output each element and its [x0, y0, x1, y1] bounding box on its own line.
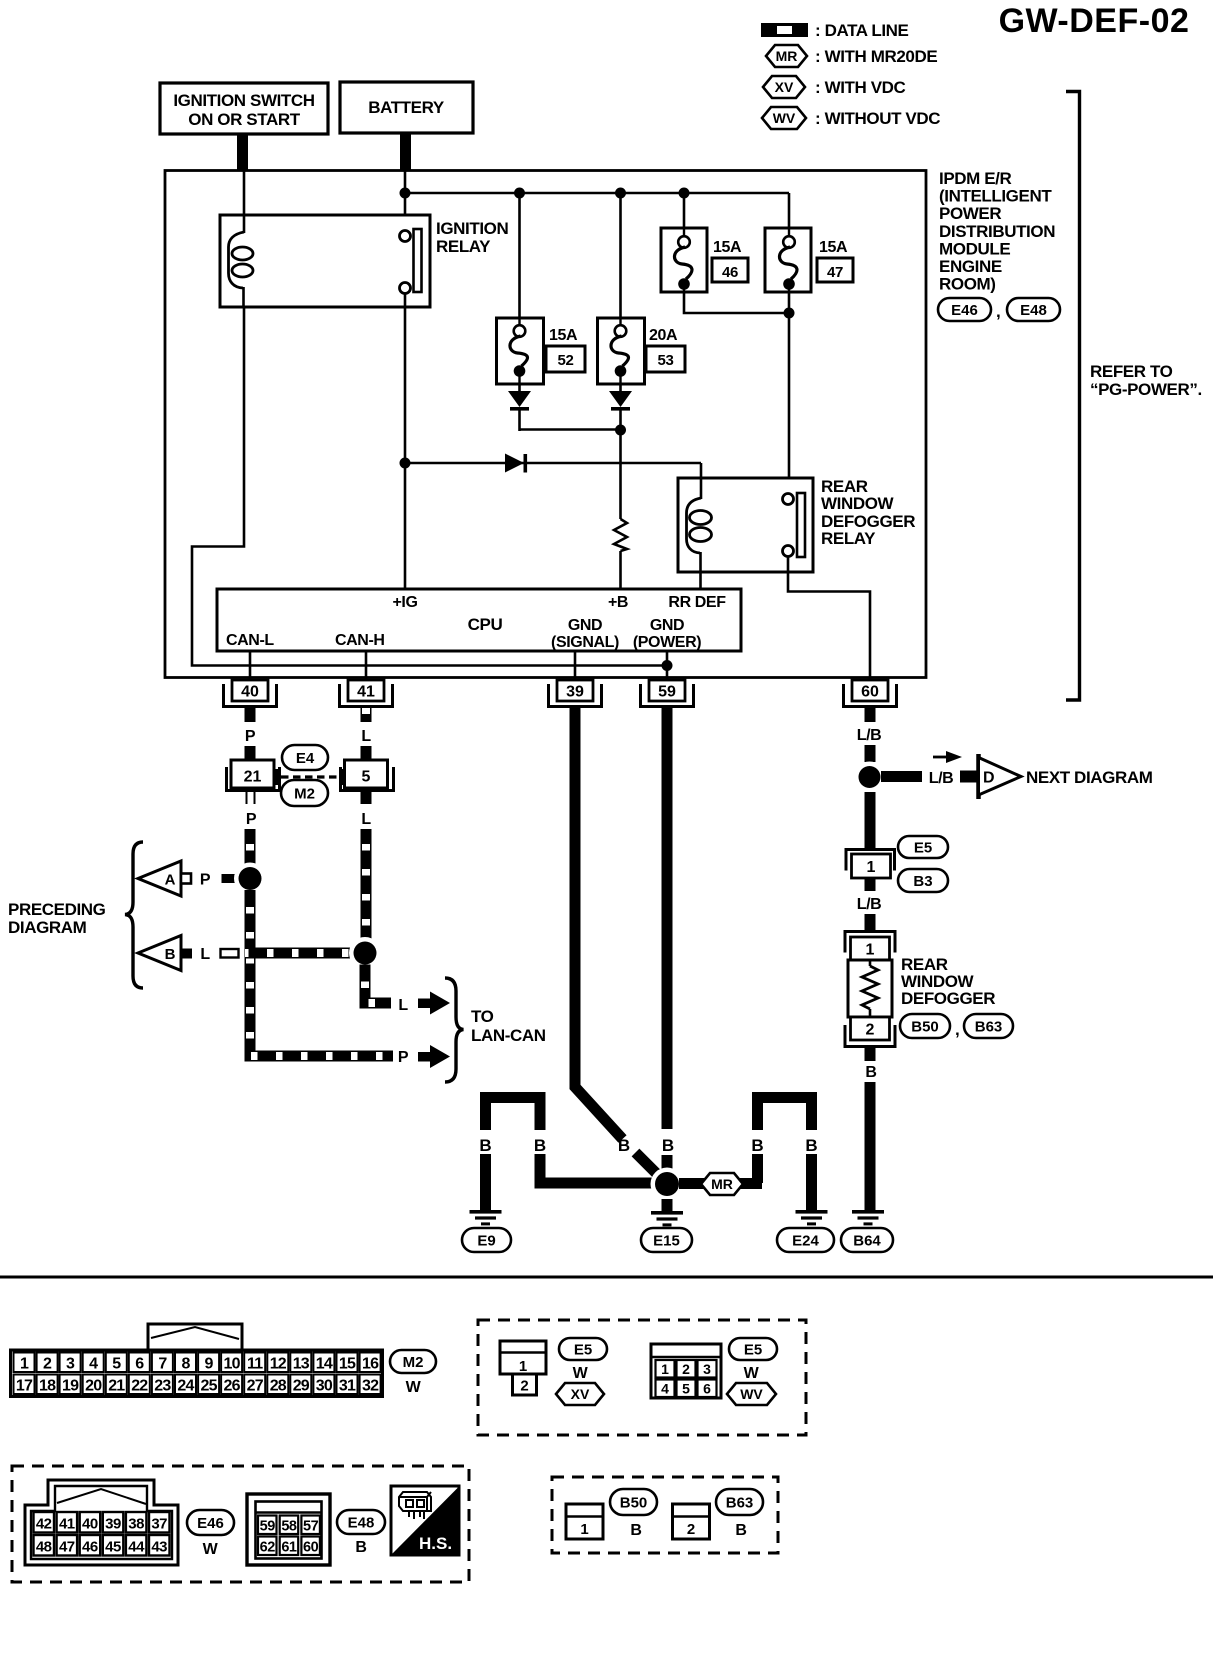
connector 21 (E4/M2 inline)	[227, 760, 280, 791]
svg-text:15A: 15A	[713, 239, 742, 256]
wire battery feed	[400, 133, 411, 171]
svg-text:42: 42	[36, 1516, 52, 1533]
comma between B50 B63	[955, 1020, 959, 1039]
svg-text:8: 8	[181, 1356, 190, 1373]
svg-text:12: 12	[270, 1356, 287, 1373]
svg-text:L/B: L/B	[857, 896, 882, 913]
label preceding diagram	[8, 900, 106, 937]
node splice L/B	[854, 762, 885, 793]
wire stub 41	[361, 707, 372, 722]
wire splice to D	[881, 771, 922, 782]
svg-text:47: 47	[827, 264, 843, 281]
defogger relay coil	[687, 478, 712, 589]
box battery	[340, 82, 473, 133]
node fuse46 tap	[679, 188, 690, 199]
svg-text:ON OR START: ON OR START	[188, 110, 300, 129]
ground label E24 oval	[777, 1228, 834, 1252]
label P wire 40	[245, 728, 256, 745]
svg-text:25: 25	[200, 1378, 217, 1395]
svg-text:40: 40	[82, 1516, 98, 1533]
wire segment to D	[960, 771, 979, 783]
label 15A (52)	[549, 327, 578, 344]
label P to lan-can	[398, 1049, 409, 1066]
node battery bus junction	[400, 188, 411, 199]
svg-text:: DATA LINE: : DATA LINE	[815, 21, 909, 40]
svg-text:44: 44	[128, 1539, 145, 1556]
label L at arrow B	[200, 946, 210, 963]
ground label E15 oval	[641, 1228, 692, 1252]
svg-text:: WITH MR20DE: : WITH MR20DE	[815, 47, 937, 66]
legend XV text	[815, 78, 906, 97]
wire L data horizontal to splice	[245, 948, 352, 959]
svg-text:B: B	[805, 1136, 817, 1155]
svg-text:B: B	[751, 1136, 763, 1155]
label 15A (46)	[713, 239, 742, 256]
svg-text:9: 9	[205, 1356, 214, 1373]
ignition relay coil	[229, 215, 254, 307]
svg-text:10: 10	[223, 1356, 240, 1373]
node GND POWER junction	[662, 660, 673, 671]
svg-text:B64: B64	[853, 1232, 881, 1249]
title GW-DEF-02	[999, 2, 1190, 40]
svg-text:7: 7	[158, 1356, 167, 1373]
connector label B50 oval	[900, 1014, 950, 1038]
wire +B vertical	[619, 430, 622, 589]
svg-text:L/B: L/B	[857, 727, 882, 744]
svg-text:XV: XV	[775, 79, 794, 95]
inline link dashes	[281, 775, 339, 778]
svg-text:,: ,	[955, 1020, 959, 1039]
box ignition switch	[160, 83, 328, 134]
svg-text:B50: B50	[620, 1494, 648, 1511]
svg-text:(INTELLIGENT: (INTELLIGENT	[939, 187, 1052, 206]
hexagon XV	[556, 1383, 604, 1405]
svg-text:E4: E4	[296, 750, 315, 767]
label B for E48	[355, 1539, 366, 1556]
svg-text:M2: M2	[403, 1354, 424, 1371]
svg-text:NEXT DIAGRAM: NEXT DIAGRAM	[1026, 768, 1153, 787]
svg-text:5: 5	[682, 1381, 690, 1397]
wire splice to MR	[679, 1178, 762, 1189]
svg-text:WINDOW: WINDOW	[821, 494, 895, 513]
svg-text:53: 53	[658, 352, 674, 369]
connector label E48 oval	[1007, 298, 1060, 321]
svg-text:PRECEDING: PRECEDING	[8, 900, 106, 919]
svg-text:B: B	[735, 1522, 746, 1539]
svg-text:11: 11	[247, 1356, 263, 1373]
connector face M2 tab	[148, 1324, 242, 1350]
svg-text:(SIGNAL): (SIGNAL)	[551, 634, 619, 651]
svg-text:39: 39	[566, 684, 584, 701]
svg-text:3: 3	[703, 1361, 711, 1377]
wire B 39 down	[575, 722, 660, 1177]
connector label B50 oval	[610, 1489, 657, 1515]
svg-text:+IG: +IG	[392, 594, 417, 611]
svg-text:W: W	[203, 1541, 219, 1558]
label GND SIGNAL	[551, 617, 619, 651]
svg-text:2: 2	[682, 1361, 690, 1377]
svg-text:P: P	[200, 872, 211, 889]
svg-text:W: W	[406, 1379, 422, 1396]
comma	[996, 302, 1000, 321]
svg-text:52: 52	[558, 352, 574, 369]
arrow B from preceding diagram	[138, 936, 192, 971]
svg-text:28: 28	[270, 1378, 287, 1395]
note REFER TO PG-POWER	[1090, 362, 1202, 399]
dashed box B50 B63	[552, 1477, 778, 1553]
svg-text:38: 38	[128, 1516, 144, 1533]
wire defogger contact to pin 60	[788, 557, 870, 681]
svg-text:MR: MR	[711, 1176, 733, 1192]
svg-text:GND: GND	[650, 617, 684, 634]
svg-text:B: B	[618, 1136, 630, 1155]
wire stub below E5 conn	[865, 878, 876, 891]
svg-text:19: 19	[62, 1378, 79, 1395]
legend data line text	[815, 21, 909, 40]
svg-text:41: 41	[357, 684, 375, 701]
label CAN-L	[226, 632, 274, 649]
svg-text:CPU: CPU	[468, 615, 503, 634]
wire L data 41 to 5	[361, 746, 372, 760]
svg-text:L: L	[398, 997, 408, 1014]
svg-text:: WITHOUT VDC: : WITHOUT VDC	[815, 109, 940, 128]
label L below 5	[361, 811, 371, 828]
label 15A (47)	[819, 239, 848, 256]
label W for M2	[406, 1379, 422, 1396]
svg-text:4: 4	[661, 1381, 669, 1397]
label B E9 right	[534, 1136, 546, 1155]
wire to diode D1	[405, 462, 701, 465]
svg-text:13: 13	[293, 1356, 310, 1373]
value box 53	[646, 346, 685, 372]
svg-text:6: 6	[135, 1356, 144, 1373]
wire stub below defogger	[865, 1047, 876, 1061]
svg-text:20: 20	[85, 1378, 102, 1395]
svg-text:E24: E24	[792, 1232, 819, 1249]
connector face M2 body	[11, 1350, 383, 1397]
ground E9	[470, 1210, 502, 1225]
arrow D next diagram	[979, 754, 1022, 799]
svg-text:1: 1	[20, 1356, 29, 1373]
svg-text:“PG-POWER”.: “PG-POWER”.	[1090, 380, 1202, 399]
svg-text:DEFOGGER: DEFOGGER	[901, 989, 995, 1008]
svg-text:2: 2	[866, 1022, 875, 1039]
jumper E24 branch	[750, 1098, 819, 1211]
legend hexagon XV	[763, 76, 805, 98]
svg-text:E15: E15	[653, 1232, 680, 1249]
svg-text:(POWER): (POWER)	[633, 634, 701, 651]
fuse 15A 46	[661, 228, 707, 292]
label B E24 right	[805, 1136, 817, 1155]
arrow L to lan-can	[418, 992, 450, 1015]
svg-text:14: 14	[316, 1356, 333, 1373]
node fuse outputs junction	[784, 308, 795, 319]
wire fuse52 feed	[518, 193, 521, 318]
svg-text:46: 46	[82, 1539, 98, 1556]
connector face E5 (WV)	[651, 1344, 721, 1398]
label B E9 left	[479, 1136, 491, 1155]
label GND POWER	[633, 617, 701, 651]
svg-text:GW-DEF-02: GW-DEF-02	[999, 2, 1190, 40]
ground label B64 oval	[841, 1228, 893, 1252]
label to lan-can	[471, 1007, 546, 1045]
label L/B wire 60	[857, 727, 882, 744]
svg-text:32: 32	[362, 1378, 379, 1395]
svg-text:1: 1	[661, 1361, 669, 1377]
connector 1 (E5/B3)	[846, 850, 895, 879]
wire to defogger	[865, 914, 876, 931]
svg-text:+B: +B	[608, 594, 628, 611]
connector pin 59	[641, 680, 694, 707]
svg-text:,: ,	[996, 302, 1000, 321]
svg-text:1: 1	[580, 1521, 588, 1538]
label ignition relay	[436, 219, 508, 256]
dashed box E46 E48	[12, 1466, 469, 1582]
label rear window defogger	[901, 955, 995, 1008]
connector 1 rear window defogger	[845, 932, 895, 961]
svg-text:L/B: L/B	[929, 770, 954, 787]
svg-text:LAN-CAN: LAN-CAN	[471, 1026, 546, 1045]
svg-text:16: 16	[362, 1356, 379, 1373]
svg-text:B: B	[479, 1136, 491, 1155]
wire P data splice down and right	[250, 890, 393, 1056]
wire stub 60	[865, 707, 876, 722]
svg-text:DIAGRAM: DIAGRAM	[8, 918, 87, 937]
wire battery bus	[405, 192, 789, 195]
connector label M2 oval	[390, 1350, 436, 1373]
node fuse53 tap	[615, 188, 626, 199]
wire P data 21 to splice	[245, 829, 256, 866]
connector label E46 oval	[938, 298, 991, 321]
svg-text:27: 27	[247, 1378, 264, 1395]
svg-text:5: 5	[112, 1356, 121, 1373]
svg-text:23: 23	[154, 1378, 171, 1395]
connector label B3 oval	[898, 869, 948, 892]
label L to lan-can	[398, 997, 408, 1014]
node +IG junction	[400, 458, 411, 469]
label B for B63	[735, 1522, 746, 1539]
connector label E46 oval	[187, 1510, 234, 1535]
svg-text:59: 59	[658, 684, 676, 701]
svg-text:W: W	[573, 1365, 589, 1382]
svg-text:40: 40	[241, 684, 259, 701]
wire L data 5 to splice	[361, 829, 372, 941]
svg-text:E5: E5	[574, 1341, 592, 1358]
svg-text:15: 15	[339, 1356, 356, 1373]
legend MR text	[815, 47, 937, 66]
wire stub below 5	[361, 790, 372, 804]
svg-text:58: 58	[281, 1519, 297, 1535]
svg-text:E48: E48	[348, 1514, 375, 1531]
label L wire 41	[361, 728, 371, 745]
wire GND POWER pin	[666, 651, 669, 680]
svg-text:E9: E9	[477, 1232, 495, 1249]
svg-text:43: 43	[151, 1539, 167, 1556]
bracket refer to PG-POWER	[1066, 92, 1080, 701]
svg-text:60: 60	[861, 684, 879, 701]
svg-text:L: L	[361, 728, 371, 745]
wire dash to splice A	[222, 874, 236, 883]
svg-text:2: 2	[43, 1356, 52, 1373]
wire coil feed	[700, 463, 703, 504]
svg-text:D: D	[983, 770, 995, 787]
svg-text:60: 60	[303, 1540, 319, 1556]
arrow P to lan-can	[418, 1045, 450, 1068]
connector label M2 oval	[281, 780, 328, 806]
wire B 59 down	[662, 722, 673, 1169]
label +B	[608, 594, 628, 611]
svg-text:WV: WV	[773, 110, 796, 126]
wire CAN-L pin	[249, 651, 252, 680]
svg-text:P: P	[398, 1049, 409, 1066]
diode D1	[505, 454, 527, 473]
label B for B50	[630, 1522, 641, 1539]
legend hexagon MR	[766, 45, 807, 67]
legend hexagon WV	[762, 107, 806, 129]
value box 47	[817, 258, 853, 282]
svg-text:MODULE: MODULE	[939, 239, 1010, 258]
hexagon MR at splice	[701, 1173, 743, 1195]
svg-text:B: B	[165, 946, 176, 963]
svg-text:CAN-H: CAN-H	[335, 632, 385, 649]
svg-text:46: 46	[722, 264, 738, 281]
svg-text:26: 26	[223, 1378, 240, 1395]
svg-text:IPDM E/R: IPDM E/R	[939, 169, 1011, 188]
svg-text:B: B	[865, 1064, 876, 1081]
label 20A (53)	[649, 327, 678, 344]
legend data line symbol	[761, 23, 808, 37]
label B wire 59	[661, 728, 672, 745]
defogger relay contact	[783, 493, 806, 557]
connector pin 39	[549, 680, 602, 707]
svg-text:A: A	[165, 872, 176, 889]
svg-text:45: 45	[105, 1539, 121, 1556]
svg-text:IGNITION SWITCH: IGNITION SWITCH	[173, 91, 314, 110]
svg-text:GND: GND	[568, 617, 602, 634]
connector pin 40	[224, 680, 277, 707]
svg-text:22: 22	[131, 1378, 148, 1395]
svg-text:61: 61	[281, 1540, 297, 1556]
node ground splice	[651, 1168, 684, 1201]
rear window defogger element	[848, 960, 892, 1017]
svg-text:48: 48	[36, 1539, 52, 1556]
svg-text:37: 37	[151, 1516, 167, 1533]
svg-text:REFER TO: REFER TO	[1090, 362, 1173, 381]
label W (XV)	[573, 1365, 589, 1382]
diode D52	[508, 384, 531, 431]
connector face E46	[25, 1480, 178, 1565]
CPU box	[217, 589, 741, 651]
svg-text:59: 59	[260, 1519, 276, 1535]
connector pin 60	[844, 680, 897, 707]
wire fuse53 feed	[619, 193, 622, 318]
node fuse52 tap	[514, 188, 525, 199]
svg-text:ROOM): ROOM)	[939, 275, 996, 294]
svg-text:30: 30	[316, 1378, 333, 1395]
label +IG	[392, 594, 417, 611]
svg-text:B: B	[630, 1522, 641, 1539]
arrow A from preceding diagram	[138, 861, 191, 896]
label rear window defogger relay	[821, 477, 915, 548]
connector face B50	[566, 1504, 603, 1539]
svg-text:1: 1	[867, 859, 876, 876]
svg-text:B: B	[355, 1539, 366, 1556]
svg-text:15A: 15A	[819, 239, 848, 256]
wire L/B 60 down	[865, 745, 876, 762]
svg-text:2: 2	[520, 1378, 528, 1395]
label W (WV)	[744, 1365, 760, 1382]
node diode junction	[615, 425, 626, 436]
svg-text:DISTRIBUTION: DISTRIBUTION	[939, 222, 1055, 241]
wire P data 40 to 21	[245, 746, 256, 760]
connector label E48 oval	[337, 1510, 385, 1534]
diode D53	[609, 384, 632, 432]
connector 2 rear window defogger	[845, 1017, 895, 1047]
wire stub below 21	[247, 789, 255, 804]
svg-text:WV: WV	[740, 1386, 763, 1402]
relay ignition relay box	[220, 215, 430, 307]
svg-text:17: 17	[16, 1378, 33, 1395]
wire ignition to relay coil	[243, 171, 246, 245]
wire white dash at arrow B	[221, 949, 239, 958]
svg-text:: WITH VDC: : WITH VDC	[815, 78, 906, 97]
svg-text:XV: XV	[571, 1386, 590, 1402]
value box 46	[712, 258, 748, 282]
hexagon WV	[727, 1383, 776, 1405]
label B on 39 wire	[618, 1136, 630, 1155]
svg-text:31: 31	[339, 1378, 356, 1395]
svg-text:RELAY: RELAY	[821, 529, 876, 548]
svg-text:20A: 20A	[649, 327, 678, 344]
svg-text:B63: B63	[726, 1494, 754, 1511]
svg-text:B50: B50	[911, 1018, 939, 1035]
label L/B below E5 conn	[857, 896, 882, 913]
svg-text:41: 41	[59, 1516, 75, 1533]
svg-text:1: 1	[519, 1358, 527, 1375]
separator line	[0, 1276, 1213, 1279]
label B below defogger	[865, 1064, 876, 1081]
value box 52	[546, 346, 585, 372]
fuse 15A 52	[497, 318, 544, 384]
svg-text:6: 6	[703, 1381, 711, 1397]
svg-text:3: 3	[66, 1356, 75, 1373]
wire stub 40	[245, 707, 256, 722]
label B wire 39	[569, 728, 580, 745]
connector label B63 oval	[716, 1489, 763, 1515]
connector pin 41	[340, 680, 393, 707]
node splice P	[234, 863, 266, 895]
svg-text:E5: E5	[914, 839, 932, 856]
svg-text:B63: B63	[975, 1018, 1003, 1035]
wire relay coil ground route	[192, 307, 667, 666]
svg-text:62: 62	[260, 1540, 276, 1556]
connector label B63 oval	[964, 1014, 1013, 1038]
brace preceding diagram	[125, 842, 143, 988]
ignition relay contact	[400, 229, 422, 294]
svg-text:MR: MR	[776, 48, 798, 64]
ground label E9 oval	[462, 1228, 511, 1252]
wire fuse47 output	[788, 292, 791, 494]
svg-text:47: 47	[59, 1539, 75, 1556]
ground B64	[852, 1210, 884, 1225]
label W for E46	[203, 1541, 219, 1558]
ground E24	[796, 1210, 828, 1225]
svg-text:E48: E48	[1020, 302, 1047, 319]
wire relay contact output	[404, 294, 407, 590]
brace to lan-can	[445, 978, 464, 1082]
label next diagram	[1026, 768, 1153, 787]
svg-text:L: L	[200, 946, 210, 963]
